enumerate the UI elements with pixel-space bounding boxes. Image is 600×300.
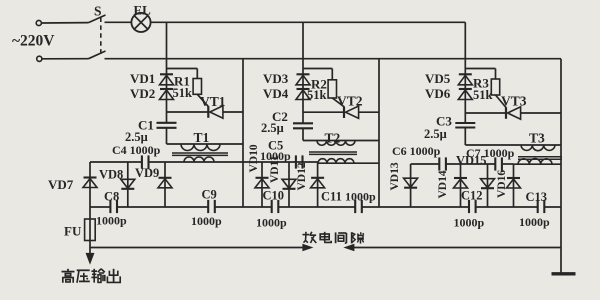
- label VD15: [456, 154, 487, 168]
- label VD11: [269, 155, 281, 183]
- svg-text:EL: EL: [134, 3, 152, 18]
- label VT1: [200, 94, 226, 109]
- diode VD5: [458, 74, 472, 85]
- diode VD7: [83, 162, 97, 219]
- label C9 value 1000p: [191, 214, 222, 228]
- svg-text:VD2: VD2: [130, 86, 155, 101]
- label C2: [272, 109, 288, 124]
- svg-text:VD11: VD11: [269, 155, 281, 183]
- svg-text:51k: 51k: [473, 88, 493, 102]
- transformer T2 secondary: [318, 159, 354, 164]
- transformer T3 secondary: [518, 159, 552, 165]
- label VD9: [135, 166, 159, 180]
- wire bottom rail right with gap arrow: [345, 245, 561, 251]
- capacitor C8: [110, 200, 117, 213]
- thyristor VT3: [465, 95, 561, 119]
- label R1 value 51k: [173, 86, 193, 100]
- wire multiplier upper left segment: [90, 162, 379, 163]
- wire stage 3 right edge vertical to ground: [560, 59, 562, 274]
- switch S pole 1: [89, 15, 106, 23]
- svg-text:1000p: 1000p: [519, 215, 550, 229]
- label C1: [138, 118, 154, 133]
- capacitor C6: [439, 157, 446, 170]
- switch S dashed link: [100, 18, 102, 55]
- svg-text:VD9: VD9: [135, 166, 159, 180]
- diode VD12: [311, 162, 325, 207]
- wire stage 1 right edge vertical: [242, 59, 244, 207]
- diode VD15: [481, 164, 495, 207]
- svg-text:1000p: 1000p: [345, 190, 376, 204]
- label VD12: [296, 162, 308, 190]
- diode VD11: [282, 162, 296, 207]
- svg-text:VD4: VD4: [263, 86, 289, 101]
- label VT2: [337, 94, 363, 109]
- transformer T1 primary: [167, 144, 244, 151]
- svg-text:VD10: VD10: [248, 144, 260, 172]
- thyristor VT2: [303, 98, 379, 118]
- label S: [94, 4, 102, 19]
- svg-text:FU: FU: [64, 224, 82, 239]
- diode VD1: [160, 74, 174, 85]
- label C12: [461, 189, 483, 203]
- svg-text:51k: 51k: [173, 86, 193, 100]
- svg-text:VT1: VT1: [200, 94, 226, 109]
- svg-text:C12: C12: [461, 189, 483, 203]
- diode VD10: [255, 162, 269, 207]
- capacitor C13: [538, 200, 545, 213]
- wire live input to switch: [41, 22, 88, 24]
- capacitor C5: [296, 155, 303, 168]
- resistor R2: [328, 80, 336, 98]
- lamp EL: [131, 13, 150, 32]
- svg-text:VT3: VT3: [501, 94, 527, 109]
- diode VD2: [160, 89, 174, 100]
- label R3 value 51k: [473, 88, 493, 102]
- transformer T1 core: [172, 153, 228, 155]
- diode VD8: [121, 162, 135, 207]
- label VT3: [501, 94, 527, 109]
- capacitor C2: [293, 123, 313, 128]
- AC input terminal top: [36, 20, 41, 25]
- wire R3 branch: [465, 69, 495, 80]
- svg-text:C10: C10: [263, 189, 285, 203]
- output arrow: [86, 248, 93, 264]
- label VD14: [437, 170, 449, 198]
- svg-text:1000p: 1000p: [96, 214, 127, 228]
- capacitor C12: [469, 200, 476, 213]
- label ~220V: [12, 33, 55, 50]
- label VD13: [389, 162, 401, 190]
- wire live rail top: [151, 21, 466, 23]
- label VD8: [99, 168, 123, 182]
- fuse FU: [85, 219, 96, 248]
- label T2: [325, 131, 341, 146]
- transformer T2 core: [309, 152, 357, 154]
- capacitor C10: [272, 200, 279, 213]
- svg-text:1000p: 1000p: [454, 216, 485, 230]
- diode VD6: [458, 89, 472, 100]
- resistor R1: [193, 79, 201, 95]
- svg-text:C13: C13: [526, 190, 548, 204]
- diode VD16: [507, 164, 521, 207]
- svg-text:1000p: 1000p: [256, 216, 287, 230]
- svg-text:2.5μ: 2.5μ: [424, 127, 447, 141]
- label R3: [473, 76, 489, 91]
- wire multiplier lower rail: [90, 206, 561, 208]
- capacitor C3: [455, 123, 475, 128]
- svg-text:2.5μ: 2.5μ: [261, 121, 284, 135]
- ground: [552, 272, 576, 275]
- svg-text:VD5: VD5: [425, 71, 451, 86]
- svg-text:C11: C11: [321, 190, 342, 204]
- svg-text:VD14: VD14: [437, 170, 449, 198]
- AC input terminal bottom: [37, 56, 42, 61]
- label C10: [263, 189, 285, 203]
- label C6 1000p: [392, 144, 441, 158]
- transformer T3 core: [518, 157, 562, 159]
- label high voltage output: [62, 269, 121, 283]
- wire stage 1 main vertical from live rail: [166, 22, 168, 144]
- svg-text:~220V: ~220V: [12, 33, 55, 50]
- wire neutral rail: [105, 58, 562, 60]
- label C8 value 1000p: [96, 214, 127, 228]
- svg-text:VD16: VD16: [496, 170, 508, 198]
- transformer T1 secondary: [184, 157, 214, 162]
- wire switch to lamp EL: [105, 21, 132, 23]
- thyristor VT1: [167, 94, 244, 118]
- capacitor C1: [157, 123, 177, 128]
- transformer T3 primary: [465, 145, 561, 151]
- label R2: [311, 77, 327, 92]
- label T1: [194, 130, 210, 145]
- svg-text:VD8: VD8: [99, 168, 123, 182]
- label C5: [268, 139, 283, 153]
- wire R2 branch: [303, 69, 332, 80]
- label VD7: [48, 177, 74, 192]
- label FU: [64, 224, 82, 239]
- svg-text:C8: C8: [104, 190, 119, 204]
- label C4 1000p: [112, 143, 161, 157]
- capacitor C4: [142, 155, 149, 168]
- switch S pole 2: [89, 51, 106, 59]
- label VD3: [263, 71, 289, 86]
- label C5 value 1000p: [260, 149, 291, 163]
- label C1 value 2.5u: [125, 130, 148, 144]
- wire R1 branch: [167, 69, 198, 79]
- label C9: [202, 188, 217, 202]
- label discharge gap: [303, 232, 364, 244]
- label VD6: [425, 86, 451, 101]
- svg-text:VD3: VD3: [263, 71, 289, 86]
- svg-text:T1: T1: [194, 130, 210, 145]
- diode VD13: [404, 164, 418, 207]
- svg-text:VD12: VD12: [296, 162, 308, 190]
- label VD10: [248, 144, 260, 172]
- svg-text:VD1: VD1: [130, 71, 155, 86]
- resistor R3: [491, 79, 499, 95]
- wire bottom rail left with gap arrow: [90, 245, 312, 251]
- wire neutral input to switch: [42, 58, 89, 60]
- label VD2: [130, 86, 155, 101]
- svg-text:2.5μ: 2.5μ: [125, 130, 148, 144]
- diode VD4: [296, 89, 310, 100]
- label C7 1000p: [466, 146, 515, 160]
- label C8: [104, 190, 119, 204]
- label R1: [174, 74, 190, 89]
- label VD16: [496, 170, 508, 198]
- label C10 value 1000p: [256, 216, 287, 230]
- label VD4: [263, 86, 289, 101]
- wire multiplier upper right segment: [411, 163, 561, 165]
- svg-text:VT2: VT2: [337, 94, 363, 109]
- capacitor C7: [495, 157, 502, 170]
- svg-text:VD7: VD7: [48, 177, 74, 192]
- svg-text:S: S: [94, 4, 102, 19]
- diode VD14: [454, 164, 468, 207]
- diode VD3: [296, 74, 310, 85]
- label EL: [134, 3, 152, 18]
- svg-text:C6 1000p: C6 1000p: [392, 144, 441, 158]
- svg-text:VD6: VD6: [425, 86, 451, 101]
- svg-text:C9: C9: [202, 188, 217, 202]
- wire stage 3 main vertical from live rail: [464, 22, 466, 145]
- wire stage 2 main vertical from live rail: [302, 22, 304, 140]
- svg-text:T2: T2: [325, 131, 341, 146]
- label C12 value 1000p: [454, 216, 485, 230]
- label VD1: [130, 71, 155, 86]
- svg-text:T3: T3: [529, 131, 545, 146]
- label C13 value 1000p: [519, 215, 550, 229]
- label C3: [436, 114, 452, 129]
- label VD5: [425, 71, 451, 86]
- diode VD9: [158, 162, 172, 207]
- svg-text:C4 1000p: C4 1000p: [112, 143, 161, 157]
- label T3: [529, 131, 545, 146]
- label C3 value 2.5u: [424, 127, 447, 141]
- label C13: [526, 190, 548, 204]
- capacitor C9: [208, 200, 215, 213]
- svg-text:VD13: VD13: [389, 162, 401, 190]
- svg-text:1000p: 1000p: [191, 214, 222, 228]
- label C11 1000p: [321, 190, 376, 204]
- wire stage 2 right edge vertical: [378, 59, 380, 207]
- label C2 value 2.5u: [261, 121, 284, 135]
- transformer T2 primary: [303, 141, 379, 146]
- capacitor C11: [355, 200, 362, 213]
- label R2 value 51k: [307, 88, 327, 102]
